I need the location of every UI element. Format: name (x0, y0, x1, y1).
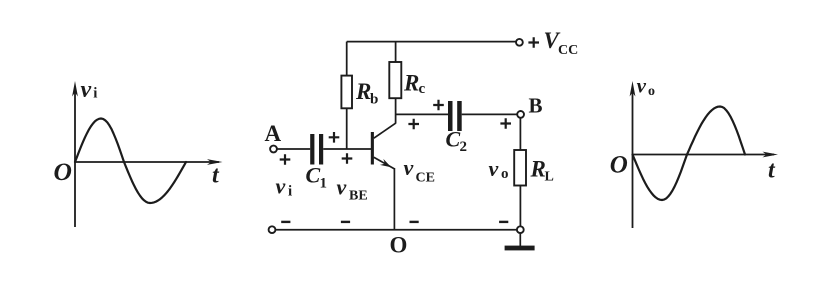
minus sign bottom 1 (281, 221, 290, 223)
wire B down to RL (519, 118, 521, 150)
node A terminal circle (270, 146, 277, 153)
collector node wire to C2 (396, 113, 448, 115)
transistor collector stroke (374, 123, 396, 138)
svg-text:C: C (446, 127, 461, 152)
svg-text:C: C (306, 163, 321, 188)
ground stub (519, 233, 521, 246)
svg-text:c: c (419, 81, 426, 97)
minus sign bottom 3 (410, 221, 419, 223)
svg-text:R: R (530, 157, 546, 182)
bottom-left terminal circle (269, 226, 276, 233)
left graph horizontal axis arrowhead (207, 159, 223, 165)
plus sign above wire (C2 left +) (433, 100, 444, 111)
svg-text:v: v (489, 156, 499, 181)
capacitor C1 left plate (310, 134, 314, 165)
ground node circle (517, 226, 524, 233)
minus sign bottom 2 (341, 221, 350, 223)
plus sign v_CE (408, 119, 419, 130)
resistor Rb body (341, 76, 352, 109)
svg-text:1: 1 (320, 176, 328, 192)
right graph horizontal axis arrowhead (763, 152, 779, 158)
plus sign right of C1 upper (329, 132, 340, 143)
svg-text:o: o (501, 166, 509, 182)
svg-text:O: O (54, 157, 72, 186)
resistor Rb lead from top rail (346, 42, 348, 76)
right graph vertical axis arrowhead (630, 81, 636, 97)
svg-text:v: v (337, 175, 347, 200)
emitter vertical wire to bottom rail (393, 168, 395, 230)
capacitor C2 left plate (448, 101, 453, 131)
right graph sine wave v_o (633, 107, 746, 201)
bottom rail wire (276, 229, 517, 231)
left graph sine wave v_i (75, 119, 186, 204)
svg-text:v: v (404, 155, 414, 180)
plus sign near B (v_o +) (500, 118, 511, 129)
wire C1 to base (323, 148, 371, 150)
svg-text:CC: CC (558, 43, 578, 58)
transistor Q1 base bar (371, 132, 374, 165)
svg-text:o: o (648, 84, 655, 99)
node B terminal circle (517, 111, 524, 118)
transistor emitter arrowhead (380, 159, 393, 171)
plus sign left of C1 (input +) (280, 154, 291, 165)
svg-text:i: i (93, 86, 97, 102)
resistor Rc lower lead to collector (395, 98, 397, 123)
left graph vertical axis arrowhead (72, 81, 78, 97)
transistor emitter stroke (374, 157, 394, 169)
plus sign of +Vcc (528, 37, 539, 48)
right graph horizontal axis (t axis) (633, 154, 775, 156)
svg-text:2: 2 (460, 139, 468, 155)
resistor RL lower lead (519, 186, 521, 227)
svg-text:L: L (545, 170, 554, 185)
plus sign base side (v_BE +) (342, 153, 353, 164)
resistor Rc body (389, 62, 401, 98)
wire A to C1 (277, 148, 310, 150)
resistor Rb lower lead to base wire (346, 108, 348, 149)
svg-text:R: R (355, 79, 371, 104)
svg-text:R: R (403, 71, 419, 96)
svg-text:O: O (610, 151, 628, 178)
svg-text:A: A (265, 121, 282, 146)
right graph vertical axis (v_o axis) (632, 91, 634, 228)
svg-text:v: v (637, 74, 647, 98)
svg-text:BE: BE (349, 189, 368, 204)
capacitor C2 right plate (457, 101, 462, 131)
svg-text:v: v (276, 174, 286, 199)
left graph horizontal axis (t axis) (75, 161, 219, 163)
+Vcc terminal circle (516, 39, 523, 46)
resistor RL body (514, 150, 526, 186)
svg-text:O: O (390, 233, 408, 258)
svg-text:CE: CE (416, 171, 435, 186)
minus sign bottom 4 (499, 221, 508, 223)
left graph vertical axis (v_i axis) (74, 91, 76, 227)
resistor Rc lead from top rail (395, 42, 397, 62)
svg-text:i: i (288, 184, 292, 200)
svg-text:v: v (81, 77, 92, 103)
wire C2 to node B (462, 113, 517, 115)
ground bar (505, 246, 535, 251)
capacitor C1 right plate (319, 134, 323, 165)
svg-text:B: B (529, 94, 543, 118)
top rail +Vcc (347, 41, 516, 43)
svg-text:b: b (370, 92, 378, 108)
